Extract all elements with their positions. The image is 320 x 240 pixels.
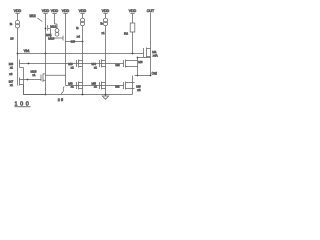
svg-text:x1: x1 bbox=[71, 65, 74, 69]
wire bias column x=17.5 bbox=[17, 28, 19, 86]
vdd rail 1 (x=17.5) bbox=[14, 9, 22, 20]
node at x132.5 on Vb1 rail bbox=[132, 53, 134, 55]
wire out column bbox=[150, 13, 152, 76]
svg-text:M2: M2 bbox=[115, 85, 120, 89]
transistor M6 bbox=[9, 60, 29, 70]
vdd rail 7 (x=132.5) bbox=[129, 9, 137, 23]
svg-text:M10: M10 bbox=[48, 36, 54, 40]
resistor R2 bbox=[124, 23, 135, 35]
transistor M7 bbox=[9, 78, 28, 88]
wire rail to M13 gate y=79.5 bbox=[28, 79, 42, 81]
transistor M3 bbox=[68, 81, 82, 89]
svg-text:xB: xB bbox=[137, 88, 140, 92]
svg-text:x4: x4 bbox=[77, 34, 80, 38]
svg-text:Ib: Ib bbox=[10, 22, 13, 26]
transistor M11 diode pair bbox=[55, 24, 59, 36]
vdd rail 6 (x=105.5) bbox=[102, 9, 110, 18]
node bus x45.5 bbox=[45, 94, 47, 96]
svg-text:10: 10 bbox=[10, 37, 14, 41]
node out bbox=[150, 75, 152, 77]
current source Ib2 bbox=[80, 18, 84, 26]
svg-text:x4A: x4A bbox=[153, 53, 158, 57]
svg-text:x1: x1 bbox=[33, 73, 36, 77]
transistor M13 bbox=[31, 70, 46, 83]
svg-text:Out: Out bbox=[152, 71, 157, 75]
wire col x65.5 down to bottom gate rail bbox=[66, 14, 83, 86]
transistor M2b bbox=[115, 82, 141, 93]
current source Ib1 bbox=[15, 20, 19, 28]
transistor M4 bbox=[92, 60, 106, 70]
transistor M8 bbox=[68, 60, 82, 70]
wire col between M6 M7 bbox=[23, 68, 25, 95]
wire M13 drain tie bbox=[46, 74, 66, 76]
node at x44.5 on Vb1 rail bbox=[45, 53, 47, 55]
svg-text:Ib: Ib bbox=[100, 21, 103, 25]
svg-text:M9: M9 bbox=[71, 39, 76, 43]
node M6 drain bbox=[28, 63, 30, 65]
svg-text:M12: M12 bbox=[30, 14, 36, 18]
transistor M10 bbox=[48, 36, 63, 41]
svg-text:x1: x1 bbox=[102, 31, 105, 35]
svg-text:M6: M6 bbox=[138, 60, 143, 64]
transistor M1 bbox=[144, 48, 158, 58]
svg-text:x1: x1 bbox=[10, 83, 13, 87]
wire R2 to rail bbox=[132, 32, 134, 54]
node bus x82.5 bbox=[82, 94, 84, 96]
svg-text:Vb1: Vb1 bbox=[24, 49, 30, 53]
node out line left bbox=[137, 75, 139, 77]
node M7 drain bbox=[27, 79, 29, 81]
wire col x105.5 bbox=[105, 26, 107, 95]
svg-text:x6: x6 bbox=[9, 72, 13, 76]
svg-text:VDD: VDD bbox=[102, 9, 110, 13]
svg-text:25: 25 bbox=[58, 98, 65, 102]
svg-text:OUT: OUT bbox=[147, 9, 155, 13]
transistor M2 bbox=[115, 60, 142, 68]
node at 82.5,41.5 bbox=[82, 41, 84, 43]
wire M7 source down to bus bbox=[24, 85, 46, 95]
wire rail Vb1 y=53.5 bbox=[18, 53, 144, 55]
svg-text:VDD: VDD bbox=[51, 9, 59, 13]
ground bbox=[102, 95, 108, 100]
node Vb1 bbox=[17, 53, 19, 55]
svg-text:M2: M2 bbox=[115, 63, 120, 67]
wire y57.5 bbox=[138, 58, 151, 76]
svg-text:VDD: VDD bbox=[14, 9, 22, 13]
svg-text:R2: R2 bbox=[124, 31, 128, 35]
svg-text:M12: M12 bbox=[50, 24, 56, 28]
node bus x105.5 bbox=[105, 94, 107, 96]
svg-text:VDD: VDD bbox=[62, 9, 70, 13]
node M12 gate tie bbox=[45, 28, 47, 30]
svg-text:x1: x1 bbox=[10, 65, 13, 69]
vdd rail 4 (x=66.5) bbox=[62, 9, 70, 13]
wire ground bus y=94.5 bbox=[24, 94, 133, 96]
svg-text:x1: x1 bbox=[71, 85, 74, 89]
current arrow 25 bbox=[61, 87, 64, 95]
current source Ib3 bbox=[103, 18, 107, 26]
wire top gate rail y=63.5 bbox=[29, 63, 124, 65]
transistor M12 bbox=[46, 24, 64, 38]
wire out line y75.5 bbox=[135, 75, 151, 77]
svg-text:x1: x1 bbox=[94, 65, 97, 69]
svg-text:x1: x1 bbox=[94, 85, 97, 89]
wire col x82.5 bbox=[82, 26, 84, 95]
svg-text:VDD: VDD bbox=[129, 9, 137, 13]
svg-text:VDD: VDD bbox=[79, 9, 87, 13]
wire M2b col bbox=[132, 76, 134, 95]
transistor M5 bbox=[92, 81, 106, 89]
svg-text:Ib: Ib bbox=[76, 26, 79, 30]
vdd rail 5 (x=82.5) bbox=[79, 9, 87, 18]
node M1 source bbox=[137, 57, 139, 59]
svg-text:VDD: VDD bbox=[42, 9, 50, 13]
wire bottom gate rail y=85.5 bbox=[66, 85, 124, 87]
wire col x45.5 bbox=[45, 32, 47, 95]
vdd rail 2 (x=44.5) bbox=[42, 9, 50, 24]
vdd rail 3 (x=54.5) bbox=[51, 9, 59, 24]
